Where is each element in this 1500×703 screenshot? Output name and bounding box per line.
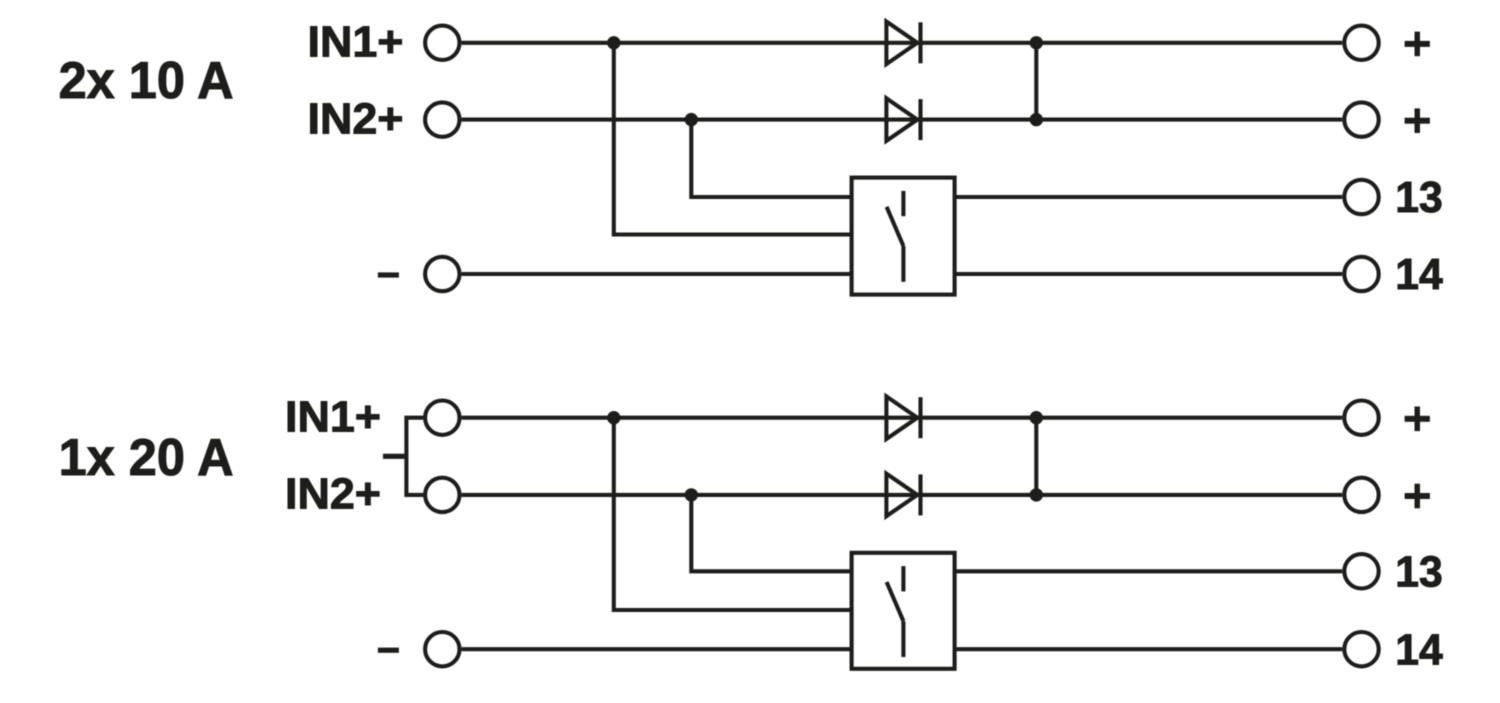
svg-text:2x 10 A: 2x 10 A	[59, 52, 234, 110]
svg-text:1x 20 A: 1x 20 A	[59, 429, 234, 487]
svg-text:14: 14	[1395, 250, 1443, 299]
svg-text:IN1+: IN1+	[285, 393, 381, 442]
svg-text:13: 13	[1395, 173, 1443, 222]
svg-text:IN2+: IN2+	[285, 470, 381, 519]
svg-text:IN2+: IN2+	[308, 94, 404, 143]
svg-text:14: 14	[1395, 625, 1443, 674]
svg-text:13: 13	[1395, 548, 1443, 597]
svg-text:IN1+: IN1+	[308, 18, 404, 67]
